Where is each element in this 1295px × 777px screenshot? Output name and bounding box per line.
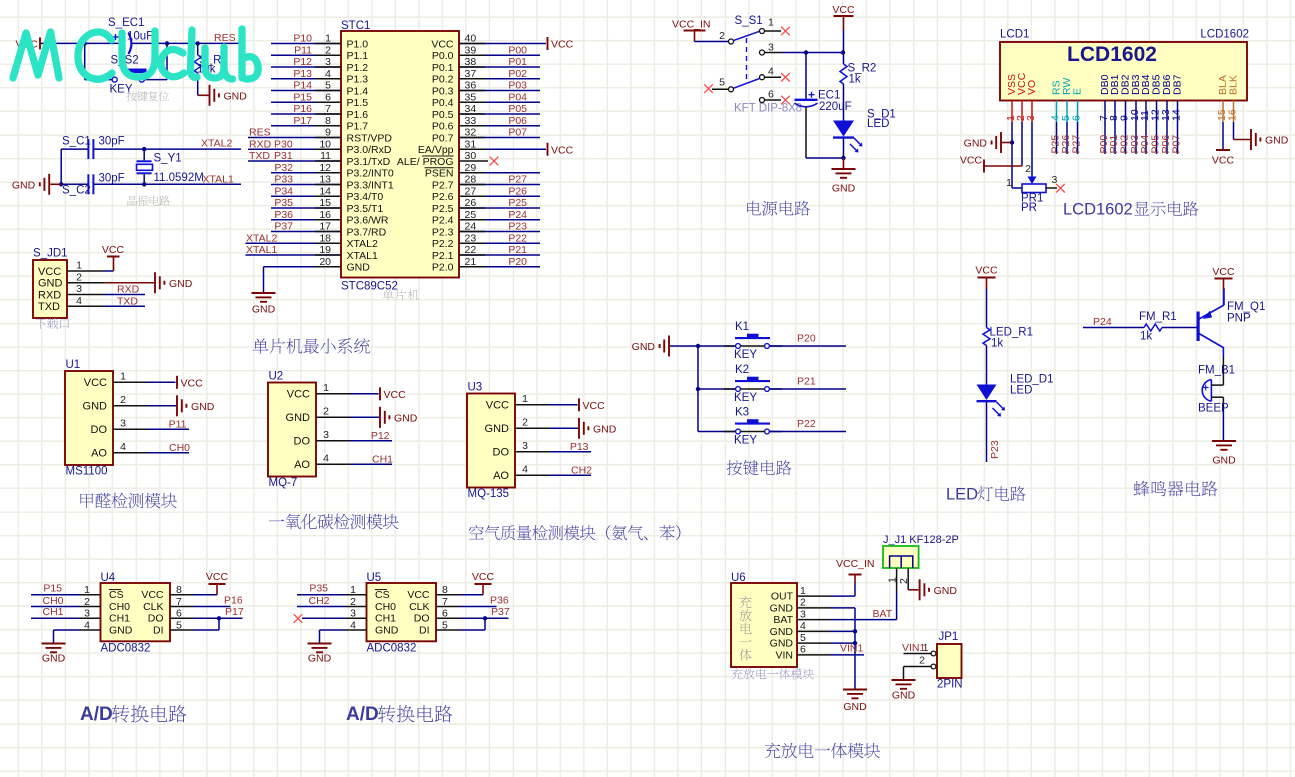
svg-text:P2.7: P2.7 [432,179,454,191]
svg-text:VCC: VCC [287,389,310,401]
svg-text:LED: LED [867,118,889,130]
svg-text:14: 14 [1171,109,1183,121]
svg-text:P24: P24 [508,209,527,221]
svg-text:1: 1 [323,382,329,394]
svg-text:GND: GND [191,401,215,413]
svg-text:P25: P25 [508,197,527,209]
svg-text:DO: DO [414,613,430,625]
svg-text:34: 34 [465,103,477,115]
svg-text:LED: LED [1010,385,1032,397]
svg-text:P0.0: P0.0 [432,50,454,62]
svg-text:RXD: RXD [249,138,272,150]
svg-text:P2.2: P2.2 [432,238,454,250]
svg-text:17: 17 [319,221,331,233]
svg-text:P21: P21 [508,244,527,256]
svg-text:GND: GND [934,585,958,597]
svg-text:P22: P22 [797,418,816,430]
svg-text:1: 1 [325,33,331,45]
svg-text:A/D: A/D [346,704,379,725]
svg-text:3: 3 [768,42,774,54]
svg-text:1: 1 [1006,177,1012,189]
svg-text:18: 18 [319,232,331,244]
svg-text:GND: GND [832,183,856,195]
svg-text:VCC: VCC [407,589,430,601]
svg-text:3: 3 [120,417,126,429]
svg-text:P30: P30 [274,138,293,150]
svg-text:STC89C52: STC89C52 [341,281,398,293]
svg-text:2: 2 [120,394,126,406]
svg-text:TXD: TXD [38,301,60,313]
svg-text:XTAL2: XTAL2 [246,232,277,244]
svg-text:P3.6/WR: P3.6/WR [347,215,389,227]
svg-text:P13: P13 [293,68,312,80]
svg-text:S_Y1: S_Y1 [154,153,182,165]
svg-text:KEY: KEY [734,392,757,404]
svg-text:VCC: VCC [102,244,125,256]
svg-text:29: 29 [465,162,477,174]
svg-text:P12: P12 [293,56,312,68]
svg-text:P17: P17 [293,115,312,127]
svg-text:VCC: VCC [431,38,454,50]
svg-text:P37: P37 [491,606,510,618]
svg-text:FM_R1: FM_R1 [1139,311,1177,323]
svg-text:P0.5: P0.5 [432,109,454,121]
svg-text:P34: P34 [274,185,293,197]
svg-text:P2.6: P2.6 [432,191,454,203]
svg-text:P11: P11 [294,44,312,56]
svg-text:30pF: 30pF [99,173,125,185]
svg-text:P2.1: P2.1 [432,250,454,262]
svg-text:XTAL1: XTAL1 [203,174,234,186]
svg-text:KEY: KEY [734,349,757,361]
svg-text:LCD1602: LCD1602 [1067,43,1157,66]
svg-text:5: 5 [800,632,806,644]
svg-text:P31: P31 [274,150,293,162]
svg-text:VCC: VCC [472,571,495,583]
svg-text:3: 3 [323,429,329,441]
svg-text:VCC: VCC [38,266,61,278]
svg-text:16: 16 [1227,109,1239,121]
svg-text:4: 4 [522,463,528,475]
svg-text:CH0: CH0 [375,601,396,613]
svg-text:2: 2 [522,416,528,428]
svg-text:1: 1 [76,260,82,272]
svg-text:ADC0832: ADC0832 [367,643,417,655]
svg-text:1: 1 [887,577,899,583]
svg-text:VCC: VCC [551,144,574,156]
svg-text:VCC: VCC [960,155,983,167]
svg-text:P04: P04 [508,91,527,103]
svg-text:VCC: VCC [206,571,229,583]
svg-text:32: 32 [465,127,477,139]
svg-text:3: 3 [800,608,806,620]
svg-text:P3.0/RxD: P3.0/RxD [347,144,392,156]
svg-text:23: 23 [465,232,477,244]
svg-text:GND: GND [42,653,66,665]
svg-text:P1.7: P1.7 [347,121,369,133]
svg-text:4: 4 [323,452,329,464]
svg-text:S_JD1: S_JD1 [33,248,68,260]
svg-text:4: 4 [325,68,331,80]
svg-text:CH0: CH0 [109,601,130,613]
svg-text:ADC0832: ADC0832 [101,643,151,655]
svg-text:4: 4 [768,66,774,78]
svg-text:P16: P16 [224,595,243,607]
svg-text:13: 13 [319,174,331,186]
svg-text:VCC: VCC [384,389,407,401]
svg-text:S_C1: S_C1 [62,136,91,148]
svg-text:P27: P27 [508,174,527,186]
svg-text:11.0592M: 11.0592M [154,172,204,184]
svg-text:3: 3 [325,56,331,68]
svg-text:30pF: 30pF [99,136,125,148]
svg-text:XTAL1: XTAL1 [246,244,277,256]
svg-text:DB7: DB7 [1172,74,1184,95]
svg-text:XTAL2: XTAL2 [347,238,378,250]
svg-text:GND: GND [770,626,794,638]
svg-text:BAT: BAT [773,614,793,626]
svg-text:VO: VO [1026,80,1038,95]
svg-text:GND: GND [308,653,332,665]
svg-text:DI: DI [419,624,430,636]
svg-text:CH1: CH1 [109,613,130,625]
svg-text:22: 22 [465,244,477,256]
svg-text:VIN1: VIN1 [902,642,926,654]
svg-text:VCC: VCC [1212,155,1235,167]
svg-text:P3.3/INT1: P3.3/INT1 [347,179,394,191]
svg-text:GND: GND [1265,135,1289,147]
svg-text:LCD1: LCD1 [1000,29,1029,41]
svg-text:6: 6 [1071,115,1083,121]
svg-text:4: 4 [800,620,806,632]
svg-text:XTAL2: XTAL2 [201,138,232,150]
svg-text:P35: P35 [274,197,293,209]
svg-text:P32: P32 [274,162,293,174]
svg-text:VCC_IN: VCC_IN [672,19,711,31]
svg-text:DO: DO [91,424,108,436]
svg-text:GND: GND [169,278,193,290]
svg-text:3: 3 [76,283,82,295]
svg-text:VCC: VCC [486,400,509,412]
svg-text:39: 39 [465,44,477,56]
svg-text:P36: P36 [490,595,509,607]
svg-text:U3: U3 [468,382,483,394]
svg-text:P27: P27 [1071,135,1083,154]
svg-text:U2: U2 [269,371,284,383]
svg-text:P07: P07 [1171,135,1183,154]
svg-text:CH1: CH1 [42,606,63,618]
svg-text:P14: P14 [293,80,312,92]
svg-text:P1.4: P1.4 [347,85,369,97]
svg-text:31: 31 [465,138,477,150]
svg-text:CS: CS [375,589,390,601]
svg-text:OUT: OUT [771,591,794,603]
svg-text:VCC: VCC [1212,266,1235,278]
svg-text:P05: P05 [508,103,527,115]
svg-text:2: 2 [800,597,806,609]
svg-text:AO: AO [493,470,509,482]
svg-text:CLK: CLK [409,601,429,613]
svg-text:P01: P01 [508,56,527,68]
svg-text:A/D: A/D [80,704,113,725]
svg-text:P15: P15 [293,91,312,103]
svg-text:EA/Vpp: EA/Vpp [418,144,454,156]
svg-text:DO: DO [493,447,510,459]
svg-text:27: 27 [465,185,477,197]
svg-text:VCC: VCC [832,4,855,16]
svg-text:GND: GND [109,624,133,636]
svg-text:P23: P23 [989,440,1001,459]
svg-text:DO: DO [148,613,164,625]
svg-text:30: 30 [465,150,477,162]
svg-text:1k: 1k [849,74,861,86]
svg-text:TXD: TXD [249,150,270,162]
svg-text:RXD: RXD [38,289,61,301]
svg-text:2: 2 [898,578,910,584]
svg-text:220uF: 220uF [819,101,852,113]
svg-text:P1.5: P1.5 [347,97,369,109]
svg-text:FM_Q1: FM_Q1 [1227,301,1265,313]
svg-text:3: 3 [1025,115,1037,121]
svg-text:P3.4/T0: P3.4/T0 [347,191,384,203]
svg-text:2: 2 [323,405,329,417]
svg-text:2PIN: 2PIN [937,679,963,691]
svg-text:P0.7: P0.7 [432,132,454,144]
svg-text:RXD: RXD [117,284,140,296]
svg-text:5: 5 [325,80,331,92]
svg-text:GND: GND [485,423,510,435]
svg-text:P13: P13 [570,441,589,453]
svg-text:K1: K1 [735,321,749,333]
svg-text:P37: P37 [274,221,293,233]
svg-text:2: 2 [76,271,82,283]
svg-text:P3.1/TxD: P3.1/TxD [347,156,391,168]
svg-text:RST/VPD: RST/VPD [347,132,393,144]
svg-text:7: 7 [325,103,331,115]
svg-text:4: 4 [76,295,82,307]
svg-text:2: 2 [919,655,925,667]
svg-text:P1.2: P1.2 [347,62,369,74]
svg-text:9: 9 [325,127,331,139]
svg-text:GND: GND [770,638,794,650]
svg-text:2: 2 [719,30,725,42]
svg-text:38: 38 [465,56,477,68]
svg-text:10: 10 [319,138,331,150]
svg-text:S_S1: S_S1 [735,15,763,27]
svg-text:CH0: CH0 [169,442,190,454]
svg-text:LCD1602: LCD1602 [1063,201,1133,219]
svg-text:TXD: TXD [117,295,138,307]
svg-text:BLK: BLK [1228,75,1240,95]
svg-text:P3.5/T1: P3.5/T1 [347,203,384,215]
svg-text:J_J1 KF128-2P: J_J1 KF128-2P [883,534,959,546]
svg-text:BEEP: BEEP [1198,403,1229,415]
svg-text:P1.0: P1.0 [347,38,369,50]
svg-text:P26: P26 [508,185,527,197]
svg-text:12: 12 [319,162,331,174]
svg-text:P10: P10 [293,33,312,45]
svg-text:P2.5: P2.5 [432,203,454,215]
svg-text:S_EC1: S_EC1 [108,17,144,29]
svg-text:MS1100: MS1100 [66,466,108,478]
svg-text:P17: P17 [225,606,244,618]
svg-text:CS: CS [109,589,124,601]
svg-text:6: 6 [800,644,806,656]
svg-text:2: 2 [1025,163,1031,175]
svg-text:1: 1 [522,393,528,405]
svg-text:20: 20 [319,256,331,268]
svg-text:21: 21 [465,256,477,268]
svg-text:VCC: VCC [141,589,164,601]
svg-text:P20: P20 [797,333,816,345]
svg-text:CH1: CH1 [372,453,393,465]
svg-text:GND: GND [1212,455,1236,467]
svg-text:GND: GND [843,701,867,713]
svg-text:E: E [1072,88,1084,95]
svg-text:3: 3 [522,440,528,452]
svg-text:P1.3: P1.3 [347,74,369,86]
svg-text:P0.3: P0.3 [432,85,454,97]
svg-text:U1: U1 [66,359,81,371]
svg-text:RES: RES [249,127,271,139]
svg-text:P24: P24 [1093,316,1112,328]
svg-text:MQ-135: MQ-135 [468,488,510,500]
svg-text:P12: P12 [371,430,390,442]
svg-text:15: 15 [319,197,331,209]
svg-text:CH2: CH2 [571,464,592,476]
svg-text:BAT: BAT [873,608,893,620]
svg-text:24: 24 [465,221,477,233]
svg-text:P2.4: P2.4 [432,215,454,227]
svg-text:CLK: CLK [143,601,163,613]
svg-text:5: 5 [719,77,725,89]
svg-text:33: 33 [465,115,477,127]
svg-text:P21: P21 [797,376,816,388]
svg-text:VCC: VCC [84,377,107,389]
svg-text:P03: P03 [508,80,527,92]
svg-text:6: 6 [325,91,331,103]
svg-text:KFT DIP-8X8: KFT DIP-8X8 [734,103,802,115]
svg-text:P20: P20 [508,256,527,268]
svg-text:P2.3: P2.3 [432,226,454,238]
svg-text:P3.2/INT0: P3.2/INT0 [347,168,394,180]
svg-text:CH0: CH0 [42,595,63,607]
svg-text:VCC_IN: VCC_IN [836,558,875,570]
svg-text:P1.6: P1.6 [347,109,369,121]
svg-text:GND: GND [375,624,399,636]
svg-text:GND: GND [632,341,656,353]
svg-text:P22: P22 [508,232,527,244]
svg-text:26: 26 [465,197,477,209]
svg-text:P15: P15 [43,583,62,595]
svg-text:P1.1: P1.1 [347,50,369,62]
svg-text:1k: 1k [1140,331,1152,343]
svg-text:VCC: VCC [975,265,998,277]
svg-text:PR: PR [1021,202,1037,214]
svg-text:VIN1: VIN1 [840,643,864,655]
svg-text:P06: P06 [508,115,527,127]
svg-text:VIN: VIN [775,649,793,661]
svg-text:GND: GND [892,690,916,702]
svg-text:MQ-7: MQ-7 [269,477,298,489]
svg-text:VCC: VCC [583,400,606,412]
svg-text:P0.6: P0.6 [432,121,454,133]
svg-text:16: 16 [319,209,331,221]
svg-text:P35: P35 [309,583,328,595]
svg-text:GND: GND [224,90,248,102]
svg-text:GND: GND [770,602,794,614]
svg-text:10uF: 10uF [127,31,153,43]
svg-text:PSEN: PSEN [425,168,454,180]
svg-text:VCC: VCC [181,377,204,389]
svg-text:1: 1 [800,585,806,597]
svg-text:AO: AO [91,448,107,460]
svg-text:AO: AO [294,459,310,471]
svg-text:25: 25 [465,209,477,221]
svg-text:37: 37 [465,68,477,80]
svg-text:P02: P02 [508,68,527,80]
svg-text:GND: GND [38,278,63,290]
svg-text:K3: K3 [735,407,749,419]
svg-text:RES: RES [214,32,236,44]
svg-text:ALE/ PROG: ALE/ PROG [397,156,454,168]
svg-text:6: 6 [768,89,774,101]
svg-text:JP1: JP1 [939,631,959,643]
svg-text:P2.0: P2.0 [432,262,454,274]
svg-text:35: 35 [465,91,477,103]
svg-text:PNP: PNP [1227,313,1251,325]
svg-text:P0.4: P0.4 [432,97,454,109]
svg-text:GND: GND [12,179,36,191]
svg-text:P36: P36 [274,209,293,221]
svg-text:4: 4 [120,441,126,453]
svg-text:KEY: KEY [734,435,757,447]
svg-text:2: 2 [325,44,331,56]
svg-text:LCD1602: LCD1602 [1200,29,1249,41]
svg-text:VCC: VCC [551,39,574,51]
svg-text:1: 1 [120,370,126,382]
svg-text:GND: GND [394,412,418,424]
svg-text:CH1: CH1 [375,613,396,625]
svg-text:P07: P07 [508,127,527,139]
svg-text:19: 19 [319,244,331,256]
svg-text:GND: GND [286,412,311,424]
svg-text:P16: P16 [293,103,312,115]
svg-text:DI: DI [153,624,164,636]
svg-text:GND: GND [964,138,988,150]
svg-text:36: 36 [465,80,477,92]
svg-text:GND: GND [593,423,617,435]
svg-text:GND: GND [252,304,276,316]
svg-text:P0.1: P0.1 [432,62,454,74]
svg-text:LED: LED [946,486,978,504]
svg-text:28: 28 [465,174,477,186]
svg-text:P33: P33 [274,174,293,186]
svg-text:EC1: EC1 [818,90,840,102]
svg-text:P00: P00 [508,44,527,56]
svg-text:XTAL1: XTAL1 [347,250,378,262]
svg-text:GND: GND [347,262,371,274]
svg-text:FM_B1: FM_B1 [1198,365,1235,377]
svg-text:S_C2: S_C2 [62,185,91,197]
svg-text:P11: P11 [169,418,187,430]
svg-text:40: 40 [465,33,477,45]
svg-text:8: 8 [325,115,331,127]
svg-text:K2: K2 [735,364,749,376]
svg-text:CH2: CH2 [308,595,329,607]
svg-text:DO: DO [294,436,311,448]
svg-text:P3.7/RD: P3.7/RD [347,226,387,238]
